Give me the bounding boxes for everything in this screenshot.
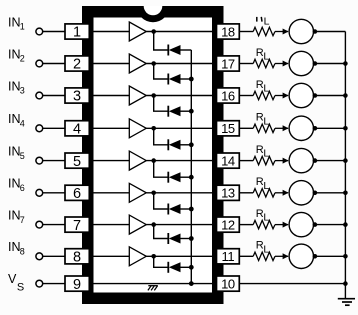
wire node 5 down to diode D5 <box>154 161 169 178</box>
pin 7 <box>65 217 89 234</box>
wire load to supply rail (pin 13) <box>314 192 346 194</box>
resistor RL (pin 16) <box>253 91 275 99</box>
wire node 8 down to diode D8 <box>154 256 169 267</box>
diode D4 <box>168 139 180 150</box>
wire IN5 terminal to pin 5 <box>43 160 65 162</box>
wire diode D7 to common rail <box>181 238 192 240</box>
resistor RL (pin 11) <box>253 252 275 260</box>
pin 15 <box>217 121 240 136</box>
junction load output (pin 17) <box>313 61 318 66</box>
wire resistor to load (pin 11) <box>275 255 288 257</box>
pin 8 <box>65 249 89 266</box>
diode D2 <box>168 74 180 85</box>
wire pin 4 to buffer A4 input <box>89 127 129 129</box>
junction common rail to pin9/pin10 wire <box>189 281 194 286</box>
wire common diode rail <box>190 50 192 284</box>
svg-text:IN: IN <box>8 240 21 254</box>
wire pin 15 to resistor RL <box>239 127 253 129</box>
wire load to supply rail (pin 16) <box>314 95 346 97</box>
wire resistor to load (pin 18) <box>275 31 288 33</box>
arrow into load (pin 13) <box>283 190 289 196</box>
svg-text:2: 2 <box>20 54 25 64</box>
wire buffer A5 output to pin 14 <box>146 160 216 162</box>
wire pin 18 to resistor RL <box>239 31 253 33</box>
svg-text:2: 2 <box>73 57 81 73</box>
load circle (pin 12) <box>289 212 313 236</box>
value label RL (pin 16) <box>256 79 270 95</box>
junction diode D3 on common rail <box>189 109 194 114</box>
input terminal IN5 <box>36 157 43 164</box>
load circle (pin 15) <box>289 116 313 140</box>
input label IN8 <box>8 240 25 256</box>
wire pin 3 to buffer A3 input <box>89 95 129 97</box>
buffer A6 <box>129 183 146 202</box>
svg-text:14: 14 <box>221 153 235 168</box>
input terminal IN8 <box>36 253 43 260</box>
input terminal IN4 <box>36 125 43 132</box>
svg-text:12: 12 <box>221 217 235 232</box>
svg-text:L: L <box>263 180 269 192</box>
pin 16 <box>217 88 240 103</box>
wire node 6 down to diode D6 <box>154 193 169 209</box>
value label RL (pin 15) <box>256 112 270 128</box>
wire load to supply rail (pin 15) <box>314 127 346 129</box>
wire pin 16 to resistor RL <box>239 95 253 97</box>
wire pin 11 to resistor RL <box>239 255 253 257</box>
junction on supply rail (pin 14) <box>343 158 348 163</box>
pin 1 <box>65 24 89 41</box>
svg-text:L: L <box>263 115 269 127</box>
pin 5 <box>65 153 89 170</box>
junction load output (pin 16) <box>313 93 318 98</box>
value label RL (pin 14) <box>256 144 270 160</box>
junction on supply rail (pin 13) <box>343 191 348 196</box>
wire diode D2 to common rail <box>181 78 192 80</box>
wire load to supply rail (pin 12) <box>314 224 346 226</box>
value label RL (pin 17) <box>256 47 270 63</box>
wire resistor to load (pin 13) <box>275 192 288 194</box>
chassis ground symbol inside IC <box>148 286 158 291</box>
buffer A4 <box>129 119 146 138</box>
wire buffer A8 output to pin 11 <box>146 255 216 257</box>
wire IN6 terminal to pin 6 <box>43 192 65 194</box>
wire resistor to load (pin 17) <box>275 63 288 65</box>
wire diode D1 to common rail <box>181 49 192 51</box>
junction on supply rail (pin 16) <box>343 93 348 98</box>
junction diode D6 on common rail <box>189 207 194 212</box>
svg-text:1: 1 <box>73 25 81 41</box>
input label IN1 <box>8 15 25 31</box>
svg-text:3: 3 <box>20 86 25 96</box>
resistor RL (pin 17) <box>253 59 275 67</box>
wire buffer A1 output to pin 18 <box>146 31 216 33</box>
arrow into load (pin 17) <box>283 61 289 67</box>
value label RL (pin 13) <box>256 176 270 192</box>
svg-text:11: 11 <box>222 249 235 264</box>
svg-text:16: 16 <box>221 88 235 103</box>
pin 12 <box>217 217 240 232</box>
junction load output (pin 13) <box>313 191 318 196</box>
load circle (pin 18) <box>289 19 313 43</box>
input label IN4 <box>8 112 25 128</box>
junction load output (pin 12) <box>313 222 318 227</box>
svg-text:L: L <box>263 51 269 63</box>
pin 2 <box>65 56 89 73</box>
wire node 7 down to diode D7 <box>154 225 169 239</box>
resistor RL (pin 14) <box>253 156 275 164</box>
wire load to supply rail (pin 14) <box>314 160 346 162</box>
pin 6 <box>65 185 89 202</box>
value label RL (top, cropped by image edge) <box>257 16 270 28</box>
svg-text:4: 4 <box>20 119 25 129</box>
resistor RL (pin 15) <box>253 124 275 132</box>
wire right supply rail <box>344 32 346 299</box>
input label IN6 <box>8 177 25 193</box>
svg-text:7: 7 <box>73 218 81 234</box>
wire pin 8 to buffer A8 input <box>89 255 129 257</box>
input label IN3 <box>8 79 25 95</box>
svg-text:L: L <box>263 243 269 255</box>
wire pin 14 to resistor RL <box>239 160 253 162</box>
node output 5 junction <box>151 158 156 163</box>
svg-text:8: 8 <box>73 250 81 266</box>
wire IN4 terminal to pin 4 <box>43 127 65 129</box>
junction load output (pin 15) <box>313 126 318 131</box>
load circle (pin 16) <box>289 83 313 107</box>
junction load output (pin 11) <box>313 254 318 259</box>
node output 8 junction <box>151 254 156 259</box>
wire pin 12 to resistor RL <box>239 224 253 226</box>
input label IN5 <box>8 144 25 160</box>
load circle (pin 11) <box>289 244 313 268</box>
svg-text:13: 13 <box>221 186 235 201</box>
svg-text:L: L <box>263 148 269 160</box>
svg-text:18: 18 <box>221 24 235 39</box>
pin 17 <box>217 56 240 71</box>
wire pin 17 to resistor RL <box>239 63 253 65</box>
junction pin10 wire on rail <box>343 281 348 286</box>
input label IN2 <box>8 47 25 63</box>
wire resistor to load (pin 16) <box>275 95 288 97</box>
pin 4 <box>65 121 89 138</box>
buffer A1 <box>129 22 146 41</box>
pin 10 <box>217 276 240 291</box>
input terminal IN7 <box>36 221 43 228</box>
svg-text:5: 5 <box>20 151 25 161</box>
load circle (pin 13) <box>289 181 313 205</box>
wire pin 2 to buffer A2 input <box>89 63 129 65</box>
pin 14 <box>217 153 240 168</box>
junction load output (pin 14) <box>313 158 318 163</box>
wire diode D8 to common rail <box>181 266 192 268</box>
svg-text:6: 6 <box>73 186 81 202</box>
value label RL (pin 11) <box>256 240 270 256</box>
wire pin 9 to pin 10 internal <box>89 283 217 285</box>
junction on supply rail (pin 12) <box>343 222 348 227</box>
load circle (pin 14) <box>289 148 313 172</box>
junction diode D4 on common rail <box>189 142 194 147</box>
buffer A5 <box>129 151 146 170</box>
wire IN3 terminal to pin 3 <box>43 95 65 97</box>
node output 3 junction <box>151 93 156 98</box>
wire load to supply rail (pin 17) <box>314 63 346 65</box>
pin 13 <box>217 185 240 200</box>
supply label VS <box>8 272 24 293</box>
wire node 2 down to diode D2 <box>154 64 169 80</box>
load circle (pin 17) <box>289 51 313 75</box>
pin 3 <box>65 88 89 105</box>
wire pin 5 to buffer A5 input <box>89 160 129 162</box>
wire IN8 terminal to pin 8 <box>43 255 65 257</box>
svg-text:8: 8 <box>20 247 25 257</box>
wire buffer A6 output to pin 13 <box>146 192 216 194</box>
resistor RL (pin 12) <box>253 220 275 228</box>
svg-text:L: L <box>263 83 269 95</box>
svg-text:6: 6 <box>20 183 25 193</box>
svg-text:L: L <box>264 16 270 28</box>
input label IN7 <box>8 208 25 224</box>
wire resistor to load (pin 15) <box>275 127 288 129</box>
arrow into load (pin 16) <box>283 93 289 99</box>
value label RL (pin 12) <box>256 208 270 224</box>
svg-text:IN: IN <box>8 208 21 222</box>
svg-text:10: 10 <box>221 276 235 291</box>
svg-text:IN: IN <box>8 79 21 93</box>
svg-text:1: 1 <box>20 22 25 32</box>
junction on supply rail (pin 11) <box>343 254 348 259</box>
pin 18 <box>217 24 240 39</box>
supply terminal VS <box>36 280 43 287</box>
diode D1 <box>168 45 180 56</box>
wire IN2 terminal to pin 2 <box>43 63 65 65</box>
junction on supply rail (pin 15) <box>343 126 348 131</box>
node output 7 junction <box>151 222 156 227</box>
junction diode D8 on common rail <box>189 265 194 270</box>
svg-text:IN: IN <box>8 15 21 29</box>
IC U1 pin-1 index notch <box>137 6 170 22</box>
junction diode D2 on common rail <box>189 77 194 82</box>
wire buffer A4 output to pin 15 <box>146 127 216 129</box>
buffer A8 <box>129 247 146 266</box>
junction load output (pin 18) <box>313 29 318 34</box>
input terminal IN3 <box>36 92 43 99</box>
arrow into load (pin 11) <box>283 253 289 259</box>
svg-text:IN: IN <box>8 144 21 158</box>
wire load to supply rail (pin 18) <box>314 31 346 33</box>
diode D3 <box>168 106 180 117</box>
diode D5 <box>168 172 180 183</box>
diode D6 <box>168 204 180 215</box>
svg-text:7: 7 <box>20 215 25 225</box>
diode D8 <box>168 262 180 273</box>
svg-text:IN: IN <box>8 177 21 191</box>
wire node 3 down to diode D3 <box>154 96 169 112</box>
svg-text:L: L <box>263 212 269 224</box>
buffer A7 <box>129 215 146 234</box>
arrow into load (pin 15) <box>283 125 289 131</box>
wire VS terminal to pin 9 <box>43 283 65 285</box>
buffer A2 <box>129 54 146 73</box>
arrow into load (pin 12) <box>283 222 289 228</box>
wire pin 13 to resistor RL <box>239 192 253 194</box>
node output 1 junction <box>151 29 156 34</box>
wire diode D6 to common rail <box>181 208 192 210</box>
junction on supply rail (pin 17) <box>343 61 348 66</box>
svg-text:15: 15 <box>221 121 235 136</box>
wire resistor to load (pin 14) <box>275 160 288 162</box>
wire pin 6 to buffer A6 input <box>89 192 129 194</box>
wire diode D3 to common rail <box>181 110 192 112</box>
wire load to supply rail (pin 11) <box>314 255 346 257</box>
wire pin 1 to buffer A1 input <box>89 31 129 33</box>
input terminal IN1 <box>36 28 43 35</box>
svg-text:17: 17 <box>221 56 235 71</box>
wire buffer A7 output to pin 12 <box>146 224 216 226</box>
wire resistor to load (pin 12) <box>275 224 288 226</box>
wire diode D4 to common rail <box>181 144 192 146</box>
IC U1 package body outline <box>82 6 224 304</box>
wire pin 10 to ground rail <box>239 283 345 285</box>
svg-text:S: S <box>17 282 24 294</box>
resistor RL (pin 18) <box>253 27 275 35</box>
svg-text:IN: IN <box>8 47 21 61</box>
buffer A3 <box>129 86 146 105</box>
node output 4 junction <box>151 126 156 131</box>
svg-text:9: 9 <box>73 277 81 293</box>
input terminal IN6 <box>36 189 43 196</box>
wire diode D5 to common rail <box>181 176 192 178</box>
node output 6 junction <box>151 191 156 196</box>
wire pin 7 to buffer A7 input <box>89 224 129 226</box>
node output 2 junction <box>151 61 156 66</box>
svg-text:4: 4 <box>73 122 81 138</box>
wire node 4 down to diode D4 <box>154 128 169 145</box>
wire node 1 down to diode D1 <box>154 32 169 51</box>
wire buffer A3 output to pin 16 <box>146 95 216 97</box>
pin 9 <box>65 276 89 293</box>
wire IN1 terminal to pin 1 <box>43 31 65 33</box>
arrow into load (pin 14) <box>283 158 289 164</box>
arrow into load (pin 18) <box>283 29 289 35</box>
svg-text:3: 3 <box>73 89 81 105</box>
wire buffer A2 output to pin 17 <box>146 63 216 65</box>
input terminal IN2 <box>36 60 43 67</box>
svg-text:5: 5 <box>73 154 81 170</box>
junction diode D5 on common rail <box>189 175 194 180</box>
junction diode D7 on common rail <box>189 236 194 241</box>
wire IN7 terminal to pin 7 <box>43 224 65 226</box>
svg-text:V: V <box>8 272 17 286</box>
resistor RL (pin 13) <box>253 189 275 197</box>
diode D7 <box>168 233 180 244</box>
pin 11 <box>217 249 240 264</box>
earth ground symbol <box>338 299 355 306</box>
svg-text:IN: IN <box>8 112 21 126</box>
